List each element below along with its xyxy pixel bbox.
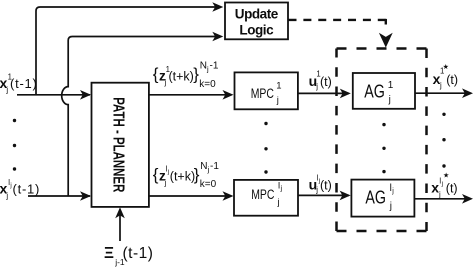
arrowhead into update logic (top) bbox=[212, 2, 223, 12]
AG column ellipsis dots bbox=[382, 123, 385, 173]
wire Xi input arrow bbox=[119, 210, 121, 242]
svg-text:j: j bbox=[167, 169, 169, 175]
svg-text:(t-1): (t-1) bbox=[10, 76, 38, 91]
wire input 2 to path planner bbox=[28, 195, 90, 197]
svg-text:Logic: Logic bbox=[239, 23, 274, 38]
svg-text:j: j bbox=[389, 201, 392, 212]
arrowhead up into path planner bbox=[115, 207, 125, 218]
arrowhead output bottom bbox=[462, 194, 473, 204]
svg-text:j: j bbox=[391, 188, 394, 195]
svg-text:(t-1): (t-1) bbox=[13, 182, 41, 197]
svg-text:j: j bbox=[277, 197, 280, 208]
svg-text:(t+k): (t+k) bbox=[169, 69, 194, 83]
arrowhead into AG2 bbox=[340, 191, 351, 201]
wire MPC2 to AG2 bbox=[298, 194, 349, 196]
label x_j^lj*(t) output bottom bbox=[431, 171, 457, 198]
block MPC j lj bbox=[234, 180, 298, 216]
dashed connector from Update Logic to supervisor box bbox=[289, 19, 386, 21]
svg-text:N: N bbox=[200, 61, 207, 72]
svg-text:j: j bbox=[315, 186, 318, 195]
label {z_j^lj(t+k)} k=0 Nj-1 bbox=[153, 161, 220, 190]
svg-text:AG: AG bbox=[365, 186, 386, 207]
svg-text:k=0: k=0 bbox=[199, 79, 216, 90]
label x_j^1(t-1) bbox=[0, 72, 38, 94]
svg-text:(t): (t) bbox=[320, 75, 332, 89]
right ellipsis dots bbox=[442, 113, 445, 168]
block Update Logic bbox=[225, 3, 288, 40]
label x_j^lj(t-1) bbox=[0, 178, 40, 201]
svg-text:j: j bbox=[315, 82, 318, 91]
wire path planner to MPC1 bbox=[149, 94, 232, 96]
arrowhead output top bbox=[462, 88, 473, 98]
arrowhead into MPC1 bbox=[223, 90, 234, 100]
arrowhead into update logic (bottom) bbox=[212, 32, 223, 42]
wire input 1 to path planner bbox=[17, 94, 90, 96]
label Xi_{j-1}(t-1) bbox=[104, 245, 153, 267]
svg-text:x: x bbox=[431, 180, 439, 196]
svg-text:★: ★ bbox=[443, 171, 449, 179]
svg-text:}: } bbox=[194, 165, 200, 184]
wire path planner to MPC2 bbox=[149, 195, 232, 197]
svg-text:Update: Update bbox=[235, 7, 279, 22]
svg-text:k=0: k=0 bbox=[200, 179, 217, 190]
wire MPC1 to AG1 bbox=[298, 92, 349, 94]
svg-text:j: j bbox=[5, 192, 8, 201]
wire AG2 output bbox=[414, 198, 470, 200]
svg-text:j: j bbox=[439, 81, 442, 90]
left ellipsis dots bbox=[13, 119, 16, 171]
svg-text:MPC: MPC bbox=[251, 187, 274, 202]
arrowhead into path planner (top) bbox=[80, 90, 91, 100]
svg-text:j: j bbox=[441, 182, 443, 188]
label {z_j^1(t+k)} k=0 Nj-1 bbox=[153, 61, 219, 90]
block AG j lj bbox=[351, 180, 414, 217]
block PATH-PLANNER bbox=[92, 83, 149, 207]
arrowhead into MPC2 bbox=[223, 191, 234, 201]
block MPC j 1 bbox=[235, 72, 298, 109]
svg-text:(t+k): (t+k) bbox=[170, 170, 195, 184]
svg-text:j: j bbox=[164, 78, 167, 87]
svg-text:-1: -1 bbox=[210, 61, 219, 72]
svg-text:-1: -1 bbox=[210, 161, 219, 172]
svg-text:j: j bbox=[388, 95, 391, 106]
wire branch 2 up to update logic with hop bbox=[62, 37, 221, 197]
svg-text:N: N bbox=[200, 161, 207, 172]
svg-text:1: 1 bbox=[388, 80, 394, 91]
arrowhead into AG1 bbox=[340, 89, 351, 99]
svg-text:j: j bbox=[280, 186, 283, 193]
svg-text:1: 1 bbox=[276, 80, 281, 91]
label x_j^1*(t) output top bbox=[433, 63, 458, 90]
svg-text:PATH - PLANNER: PATH - PLANNER bbox=[110, 97, 127, 192]
arrowhead into path planner (bottom) bbox=[80, 191, 91, 201]
svg-text:j: j bbox=[438, 190, 441, 199]
wire branch 1 up to update logic bbox=[36, 7, 221, 95]
middle ellipsis dots (between MPC boxes) bbox=[264, 122, 267, 174]
svg-text:j: j bbox=[164, 179, 167, 188]
svg-text:(t-1): (t-1) bbox=[123, 245, 154, 262]
svg-text:★: ★ bbox=[443, 63, 449, 71]
wire AG1 output bbox=[415, 92, 471, 94]
svg-text:j: j bbox=[276, 95, 279, 106]
svg-text:(t): (t) bbox=[320, 179, 332, 193]
svg-text:(t): (t) bbox=[446, 182, 458, 196]
svg-text:AG: AG bbox=[364, 80, 385, 101]
svg-text:j: j bbox=[9, 183, 11, 189]
dashed supervisor box bbox=[337, 49, 427, 232]
arrowhead down into dashed box bbox=[379, 33, 393, 48]
block AG j 1 bbox=[353, 73, 415, 109]
svg-text:MPC: MPC bbox=[251, 86, 274, 101]
svg-text:(t): (t) bbox=[446, 73, 458, 87]
svg-text:Ξ: Ξ bbox=[104, 245, 114, 262]
svg-text:}: } bbox=[193, 65, 199, 84]
svg-text:{: { bbox=[153, 165, 159, 184]
label u_j^1(t) bbox=[309, 70, 332, 91]
svg-text:j: j bbox=[5, 85, 8, 94]
label u_j^lj(t) bbox=[309, 173, 332, 194]
svg-text:{: { bbox=[153, 65, 159, 84]
